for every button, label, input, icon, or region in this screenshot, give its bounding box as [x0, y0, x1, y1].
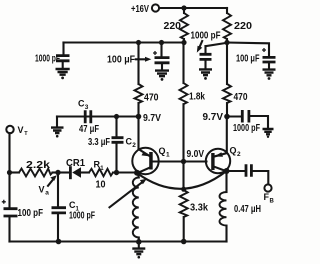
svg-text:9.0V: 9.0V — [187, 149, 205, 160]
capacitor 100pF left edge — [2, 200, 6, 204]
wire bottom rail — [10, 240, 227, 242]
node 3.3k bottom — [181, 239, 187, 245]
resistor 220 right — [226, 8, 228, 13]
capacitor 1000pF middle + arrow — [206, 43, 228, 46]
svg-text:a: a — [45, 190, 49, 197]
svg-text:47 μF: 47 μF — [79, 124, 99, 135]
svg-text:220: 220 — [164, 21, 182, 32]
resistor 220 left — [183, 8, 185, 13]
ground C3 — [56, 117, 58, 127]
capacitor C3 47uF — [85, 110, 91, 123]
resistor 2.2k — [10, 171, 20, 173]
capacitor 100uF right — [227, 43, 269, 57]
resistor 470 left — [137, 43, 139, 85]
capacitor C2 3.3uF — [115, 117, 117, 137]
svg-text:3.3k: 3.3k — [190, 203, 208, 214]
wire top rail — [159, 7, 227, 9]
svg-text:470: 470 — [144, 93, 159, 104]
svg-text:Q: Q — [159, 146, 166, 156]
svg-text:1000 pF: 1000 pF — [69, 211, 95, 222]
svg-text:Q: Q — [230, 146, 237, 156]
svg-text:V: V — [18, 125, 24, 135]
svg-text:100 μF: 100 μF — [107, 55, 135, 66]
capacitor 1000pF right — [227, 115, 241, 117]
svg-text:100 μF: 100 μF — [236, 54, 260, 65]
wire C3 row — [57, 115, 139, 117]
svg-text:+16V: +16V — [131, 4, 149, 15]
transistor Q2 — [206, 149, 230, 173]
svg-text:470: 470 — [234, 92, 248, 103]
wire base line to arc junction — [182, 162, 184, 191]
ground — [155, 71, 169, 77]
svg-text:220: 220 — [234, 21, 252, 32]
svg-text:3: 3 — [85, 104, 89, 111]
ground bottom rail — [138, 242, 140, 248]
resistor 1.8k — [182, 43, 184, 84]
ground — [199, 69, 212, 75]
node Q1 collector blob — [134, 170, 140, 176]
capacitor output — [230, 170, 245, 172]
wire collector arc — [137, 171, 227, 189]
arrow variable — [110, 182, 143, 208]
wire left edge — [8, 133, 10, 207]
svg-text:0.47 μH: 0.47 μH — [234, 204, 261, 215]
node 9.7V right — [224, 114, 230, 120]
node right supply — [224, 40, 229, 45]
node Va — [55, 170, 60, 175]
resistor 470 right — [226, 43, 228, 85]
node 2.2k tap — [7, 170, 12, 175]
svg-text:CR1: CR1 — [66, 158, 85, 169]
node coil bottom — [136, 239, 142, 245]
svg-text:2: 2 — [237, 151, 241, 158]
node C1 bottom — [56, 239, 62, 245]
svg-text:9.7V: 9.7V — [143, 113, 161, 124]
wire to Q1 — [113, 171, 136, 173]
wire supply node left row — [64, 41, 185, 43]
node C2 tap — [114, 114, 119, 119]
svg-text:10: 10 — [96, 179, 106, 190]
node Q2 collector blob — [224, 168, 230, 174]
svg-text:3.3 μF: 3.3 μF — [88, 137, 110, 148]
terminal VT — [6, 126, 13, 133]
capacitor 100uF left — [160, 43, 162, 57]
ground — [56, 69, 70, 75]
transistor Q1 — [132, 148, 158, 174]
capacitor 1000pF top-left — [62, 43, 64, 55]
resistor 3.3k — [181, 187, 186, 192]
node 9.7V left — [136, 114, 142, 120]
inductor 0.47uH — [225, 174, 227, 193]
terminal FB — [264, 184, 271, 191]
node 470L tap — [136, 40, 141, 45]
svg-text:1.8k: 1.8k — [189, 92, 205, 103]
svg-text:100 pF: 100 pF — [18, 208, 44, 219]
node 100uF tap — [159, 40, 164, 45]
node left supply — [181, 40, 186, 45]
svg-text:1: 1 — [166, 152, 170, 159]
ground — [263, 129, 274, 134]
svg-text:2.2k: 2.2k — [26, 160, 51, 171]
svg-text:1000 pF: 1000 pF — [191, 31, 221, 42]
svg-text:B: B — [270, 198, 275, 204]
inductor variable left — [138, 174, 139, 178]
svg-text:9.7V: 9.7V — [203, 112, 224, 123]
diode CR1 — [58, 171, 69, 173]
svg-text:2: 2 — [132, 142, 136, 149]
wire 9.0V base line — [153, 160, 207, 162]
node 1.8k tap — [181, 159, 186, 164]
svg-text:1000 pF: 1000 pF — [233, 123, 260, 134]
resistor R1 10 — [89, 169, 113, 176]
ground — [263, 70, 276, 76]
svg-text:1000 pF: 1000 pF — [35, 54, 60, 65]
svg-text:V: V — [39, 184, 45, 194]
node junction top — [181, 5, 186, 10]
capacitor C1 1000pF — [57, 174, 59, 207]
node C2/R1 junction — [114, 170, 119, 175]
